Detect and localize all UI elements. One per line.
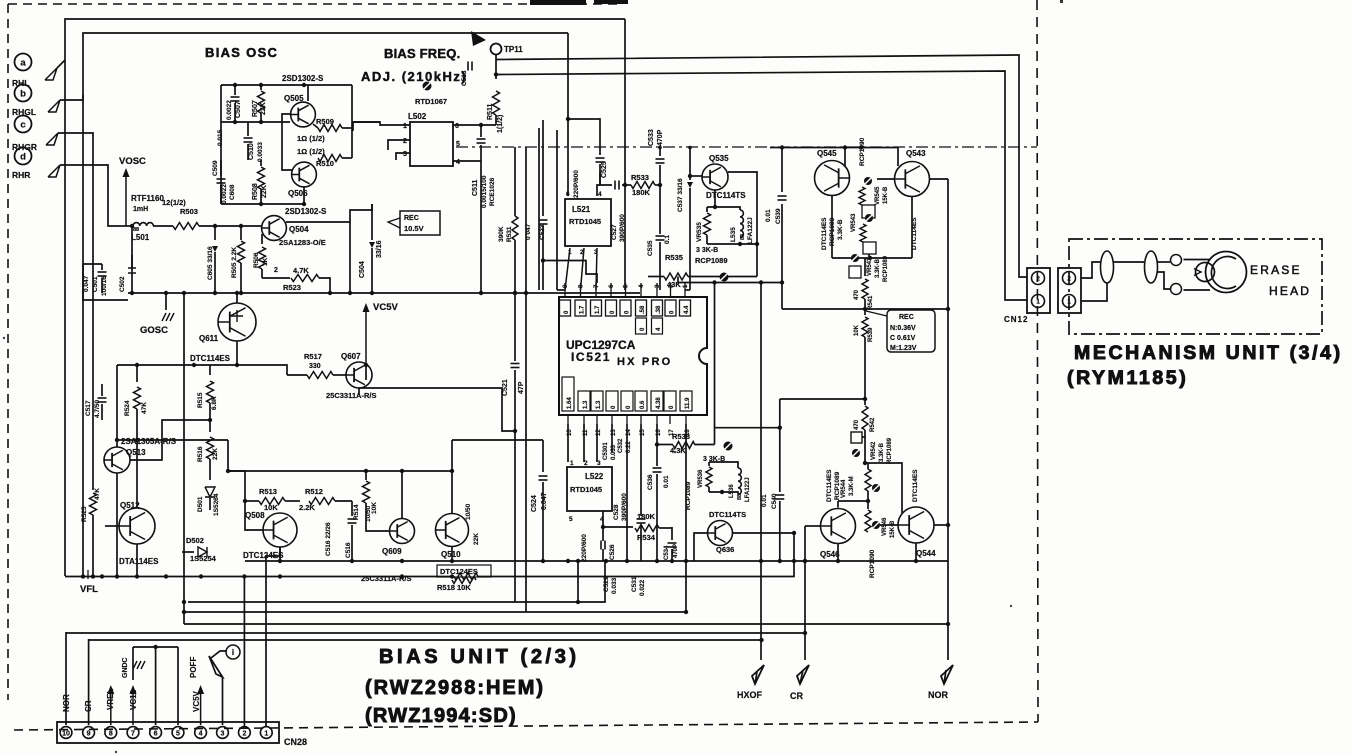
svg-text:C539: C539 — [775, 208, 782, 224]
svg-text:Q636: Q636 — [716, 545, 734, 554]
svg-text:88: 88 — [737, 494, 743, 500]
svg-text:25C3311A-R/S: 25C3311A-R/S — [326, 391, 376, 400]
svg-text:DTA114ES: DTA114ES — [119, 557, 159, 566]
svg-text:9: 9 — [87, 730, 91, 737]
wire head pin2 — [1081, 262, 1101, 278]
svg-text:HX PRO: HX PRO — [617, 356, 672, 368]
wire Q543 top — [897, 148, 899, 167]
svg-text:BIAS FREQ.: BIAS FREQ. — [384, 46, 460, 61]
svg-text:DTC124ES: DTC124ES — [440, 567, 478, 576]
connector mech side — [1058, 268, 1081, 313]
resistor R538 wire — [713, 444, 715, 446]
wire Q513 connections — [116, 440, 118, 447]
wire VFL rail — [65, 576, 452, 578]
resistor R507 — [260, 85, 262, 90]
svg-text:Q546: Q546 — [820, 550, 840, 559]
IC521 top second boxes — [636, 318, 647, 334]
resistor R542 470 — [864, 352, 866, 405]
bus wire y640 HXOF run — [89, 639, 762, 641]
svg-text:R509: R509 — [316, 117, 334, 126]
IC521 top pin 5 — [625, 290, 627, 297]
capacitor C504 — [371, 204, 373, 240]
border dashed bottom — [14, 722, 1038, 730]
transistor Q504 — [262, 216, 287, 241]
svg-text:L521: L521 — [572, 205, 591, 214]
svg-text:7: 7 — [131, 730, 135, 737]
wire Q511 bottom — [236, 341, 238, 365]
svg-text:1mH: 1mH — [133, 206, 148, 213]
bus wire y612 — [184, 611, 686, 613]
wire x782 vertical — [781, 148, 783, 193]
resistor R516 — [209, 420, 211, 432]
border dashed top — [8, 3, 622, 5]
svg-text:MECHANISM UNIT (3/4): MECHANISM UNIT (3/4) — [1074, 342, 1343, 364]
svg-text:C528: C528 — [613, 504, 620, 520]
svg-text:Q545: Q545 — [817, 149, 837, 158]
svg-text:22K: 22K — [260, 102, 267, 115]
transistor Q545 — [815, 161, 850, 196]
trimmer dot Q536 — [724, 442, 733, 451]
svg-text:POFF: POFF — [189, 657, 198, 678]
svg-text:R512: R512 — [305, 487, 323, 496]
svg-text:Q505: Q505 — [284, 94, 304, 103]
svg-text:0.047: 0.047 — [541, 492, 548, 510]
wire center vertical x526 — [525, 147, 527, 612]
svg-text:Q510: Q510 — [441, 550, 461, 559]
svg-text:L502: L502 — [408, 112, 427, 121]
svg-text:2: 2 — [403, 138, 407, 145]
bus wire TP11 to CN12 pin2 — [496, 55, 1027, 277]
inner border wire 1 — [65, 19, 625, 576]
svg-text:C537 33/16: C537 33/16 — [677, 178, 684, 212]
wire left col x117 — [116, 365, 118, 440]
svg-text:1.7: 1.7 — [595, 305, 601, 314]
svg-text:1.7: 1.7 — [579, 305, 585, 314]
svg-text:0.022: 0.022 — [639, 579, 646, 596]
wire row 440 to C524 — [452, 439, 543, 441]
wire IC to L522 — [567, 424, 569, 462]
svg-text:10K: 10K — [854, 324, 860, 336]
label VFL — [87, 570, 89, 579]
svg-text:4.7K: 4.7K — [293, 266, 309, 275]
wire CN28 pin1 up — [266, 547, 280, 727]
switch CR — [797, 665, 809, 684]
transistor Q511 — [218, 303, 256, 341]
switch POFF — [222, 677, 224, 725]
ground GOSC — [165, 293, 167, 310]
svg-text:6: 6 — [566, 191, 570, 198]
svg-text:L522: L522 — [585, 472, 604, 481]
svg-text:R538: R538 — [672, 432, 690, 441]
svg-text:3 3K-B: 3 3K-B — [696, 247, 718, 254]
CN28 pin 9 — [83, 727, 95, 739]
transistor Q510 — [436, 514, 469, 547]
IC521 bottom pin 11 — [583, 415, 585, 424]
svg-text:1: 1 — [264, 730, 268, 737]
wire L502 pin6 to R511 — [453, 124, 496, 126]
bus wire y602 — [188, 561, 605, 602]
svg-text:Q535: Q535 — [709, 154, 729, 163]
svg-text:10: 10 — [62, 730, 70, 737]
bus wire y561 component rail — [245, 560, 948, 562]
wire Q512 base — [105, 525, 119, 527]
svg-text:DTC114ES: DTC114ES — [912, 469, 919, 502]
svg-text:6: 6 — [154, 730, 158, 737]
CN28 pin 7 — [127, 727, 139, 739]
svg-text:CN28: CN28 — [284, 737, 307, 747]
svg-text:1: 1 — [403, 123, 407, 130]
svg-text:10K: 10K — [264, 503, 278, 512]
svg-text:2SA1305A-R/S: 2SA1305A-R/S — [121, 437, 177, 446]
transistor Q513 — [104, 447, 130, 473]
CN28 pin 8 — [105, 727, 117, 739]
svg-text:DTC114ES: DTC114ES — [821, 217, 828, 250]
oscillator coil L502 — [410, 122, 453, 166]
svg-text:TP11: TP11 — [504, 45, 523, 54]
transistor Q512 — [119, 508, 155, 544]
transistor Q543 — [895, 162, 930, 197]
scan speck — [3, 337, 5, 339]
wire pin18 column — [685, 424, 687, 612]
svg-text:0.047: 0.047 — [83, 275, 90, 292]
svg-text:VC5V: VC5V — [373, 302, 398, 313]
wire Q636 right — [732, 532, 794, 534]
wire L536 loop — [709, 462, 738, 468]
wire Q535 emitter down — [714, 190, 716, 207]
svg-text:3.3K-B: 3.3K-B — [879, 442, 885, 462]
svg-text:10.5V: 10.5V — [404, 224, 424, 233]
svg-text:0.0022: 0.0022 — [226, 100, 233, 120]
svg-text:RCP1089: RCP1089 — [685, 481, 692, 510]
wire Q607 collector — [365, 364, 367, 366]
ground wire row R523 — [128, 292, 640, 294]
head gap wedge — [1194, 269, 1201, 276]
resistor R508 — [260, 160, 262, 166]
wire into L521 — [567, 33, 569, 196]
svg-text:0.6: 0.6 — [640, 400, 646, 409]
svg-text:3: 3 — [221, 730, 225, 737]
svg-text:R525: R525 — [81, 506, 88, 522]
svg-text:1(1/2): 1(1/2) — [497, 115, 504, 133]
svg-text:C507: C507 — [235, 101, 242, 118]
svg-text:C525: C525 — [601, 161, 608, 178]
svg-text:3.3K-B: 3.3K-B — [875, 258, 881, 278]
wire NOR column upper — [947, 179, 949, 624]
IC521 bottom pin 15 — [640, 415, 642, 424]
inductor L501 — [118, 225, 133, 227]
trimmer dot RCP1089 — [720, 273, 729, 282]
wire x557 column — [556, 130, 558, 290]
svg-text:4.4: 4.4 — [684, 305, 690, 314]
pot VR545 cluster — [864, 177, 872, 185]
svg-text:C516: C516 — [345, 542, 352, 558]
svg-text:C513: C513 — [461, 70, 468, 86]
svg-text:100/16: 100/16 — [101, 276, 108, 296]
wire x350 down — [349, 222, 351, 293]
transistor Q505 — [291, 102, 316, 127]
svg-text:1: 1 — [570, 460, 574, 467]
svg-text:.38: .38 — [656, 305, 662, 314]
svg-text:1K: 1K — [262, 257, 269, 266]
capacitor C605 — [214, 226, 216, 240]
wire Q505 collector riser — [307, 85, 309, 101]
resistor R524 — [136, 365, 138, 382]
bandpass L522 RTD1045 — [567, 467, 612, 511]
svg-text:CR: CR — [790, 691, 803, 701]
svg-text:1Ω (1/2): 1Ω (1/2) — [297, 147, 325, 156]
wire left riser x184 — [183, 293, 185, 624]
svg-text:D501: D501 — [197, 496, 204, 512]
svg-text:R513: R513 — [259, 487, 277, 496]
trimmer VR541 — [851, 254, 859, 262]
svg-text:C536: C536 — [647, 474, 654, 490]
wire Q543 bottom — [911, 197, 913, 258]
scan smudge top edge — [530, 0, 586, 5]
wire x452 column — [451, 440, 453, 513]
svg-text:Q544: Q544 — [916, 549, 936, 558]
wire L502 pin2 — [388, 140, 410, 150]
connector CN12 — [1027, 268, 1050, 313]
pot VR543 cluster — [865, 214, 873, 222]
switch contact RHGR — [46, 133, 58, 145]
svg-text:2: 2 — [1036, 276, 1040, 283]
resistor R509 — [318, 125, 342, 132]
svg-text:10K: 10K — [371, 502, 378, 514]
svg-text:VOSC: VOSC — [119, 156, 146, 167]
svg-text:0.1: 0.1 — [664, 235, 671, 244]
wire head pin1 — [1081, 283, 1107, 301]
svg-text:R539: R539 — [868, 327, 874, 342]
svg-text:470: 470 — [854, 419, 860, 430]
resistor R525 — [92, 486, 94, 490]
IC521 top pin 9 — [564, 290, 566, 297]
svg-text:2SD1302-S: 2SD1302-S — [285, 207, 327, 216]
svg-text:RCP1089: RCP1089 — [695, 256, 728, 265]
wire y399 link — [780, 398, 865, 400]
wire L521 pins to IC — [565, 248, 570, 290]
wire R525 — [92, 460, 94, 486]
wire Q535 collector loop — [728, 172, 757, 277]
transistor Q544 — [898, 507, 934, 543]
svg-text:470P: 470P — [673, 544, 679, 558]
head winding — [1184, 259, 1211, 261]
svg-text:HXOF: HXOF — [737, 690, 763, 700]
svg-text:R542: R542 — [870, 417, 876, 432]
svg-text:C535: C535 — [647, 240, 654, 256]
svg-text:22K: 22K — [261, 185, 268, 198]
svg-text:4: 4 — [199, 730, 203, 737]
svg-text:6: 6 — [455, 123, 459, 130]
input terminal c — [15, 116, 32, 133]
svg-text:2: 2 — [584, 460, 588, 467]
wire C501 row — [83, 263, 102, 265]
svg-text:(RYM1185): (RYM1185) — [1067, 367, 1188, 389]
svg-text:L536: L536 — [729, 484, 735, 498]
resistor R505 — [240, 226, 242, 240]
svg-text:0.0022: 0.0022 — [221, 184, 228, 204]
svg-text:12(1/2): 12(1/2) — [162, 198, 186, 207]
capacitor C501 — [101, 264, 103, 270]
bus wire y624 NOR run — [184, 623, 948, 625]
IC521 top pin 7 — [595, 290, 597, 297]
svg-text:R508: R508 — [252, 183, 259, 200]
transistor Q607 — [346, 362, 372, 388]
wire RHL to bus — [57, 60, 65, 68]
wire C527 row — [600, 172, 612, 185]
osc block top wire — [221, 84, 352, 86]
bus wire to CN12 pin1 — [496, 71, 1027, 300]
connector CN28 — [57, 722, 279, 743]
wire Q636 base left — [694, 533, 708, 561]
svg-text:VFL: VFL — [80, 584, 98, 595]
svg-text:470: 470 — [854, 289, 860, 300]
pot VR546 — [867, 501, 869, 509]
inner border wire 2 — [83, 33, 568, 576]
input terminal a — [15, 54, 32, 71]
svg-text:3.3K-B: 3.3K-B — [837, 219, 844, 240]
trimmer VR546 — [872, 521, 880, 529]
wire Q544 base — [880, 524, 898, 526]
svg-text:4: 4 — [598, 191, 602, 198]
resistor R510 — [318, 155, 342, 162]
svg-text:RHR: RHR — [12, 170, 30, 180]
IC521 bottom pin 12 — [596, 415, 598, 424]
svg-text:VR546: VR546 — [882, 517, 888, 536]
svg-text:180K: 180K — [632, 188, 651, 197]
switch NOR — [941, 665, 953, 684]
IC521 bottom pin 13 — [611, 415, 613, 424]
svg-text:2.2K: 2.2K — [299, 503, 315, 512]
svg-text:3: 3 — [597, 460, 601, 467]
wire Q504 base row — [199, 225, 262, 227]
svg-text:RTD1045: RTD1045 — [569, 217, 601, 226]
resistor R506 — [261, 234, 263, 244]
wire L502 pin3 — [396, 153, 410, 160]
svg-text:0.01: 0.01 — [765, 209, 772, 222]
svg-text:C524: C524 — [531, 495, 538, 512]
CN28 pin 5 — [172, 727, 184, 739]
svg-text:1.3: 1.3 — [583, 400, 589, 409]
svg-text:b: b — [20, 89, 26, 100]
svg-text:C504: C504 — [359, 261, 366, 278]
CN28 pin 6 — [150, 727, 162, 739]
svg-text:d: d — [20, 152, 26, 163]
svg-text:(RWZ2988:HEM): (RWZ2988:HEM) — [365, 677, 545, 699]
svg-text:IC521: IC521 — [571, 350, 611, 364]
svg-text:RTD1045: RTD1045 — [570, 485, 602, 494]
IC521 top pin 8 — [580, 290, 582, 297]
svg-text:Q543: Q543 — [906, 149, 926, 158]
wire L502 pin4 — [453, 160, 481, 162]
IC521 bottom pin 18 — [685, 415, 687, 424]
svg-text:DTC114TS: DTC114TS — [706, 191, 746, 200]
resistor R515 — [209, 365, 211, 375]
svg-text:ADJ. (210kHz): ADJ. (210kHz) — [361, 69, 467, 84]
svg-text:25C3311A-R/S: 25C3311A-R/S — [361, 574, 411, 583]
capacitor C535 — [656, 235, 665, 237]
svg-text:2SA1283-O/E: 2SA1283-O/E — [279, 238, 326, 247]
svg-text:C501: C501 — [92, 276, 99, 292]
transistor Q508 — [263, 513, 297, 547]
wire Q506 emitter — [303, 187, 305, 204]
svg-text:VR545: VR545 — [875, 186, 881, 205]
wire L522 pin4 — [603, 511, 633, 527]
svg-text:RCP1089: RCP1089 — [883, 255, 889, 282]
pot VR536 — [708, 462, 710, 466]
wire L535 loop — [707, 207, 740, 210]
svg-text:C531: C531 — [631, 576, 638, 592]
svg-text:2SD1302-S: 2SD1302-S — [282, 74, 324, 83]
svg-text:5: 5 — [176, 730, 180, 737]
erase head core — [1206, 252, 1247, 293]
test point TP11 — [491, 44, 502, 55]
capacitor C526 — [602, 527, 604, 541]
wire x543 column — [542, 120, 544, 196]
resistor R541 470 — [864, 258, 866, 276]
IC521 bottom pin 10 — [567, 415, 569, 424]
resistor R523 — [262, 277, 290, 279]
switch contact RHR — [48, 165, 60, 177]
wire L502 pin1 — [353, 122, 410, 131]
osc block left rail — [220, 85, 222, 204]
svg-text:3: 3 — [403, 151, 407, 158]
svg-text:43K: 43K — [667, 280, 681, 289]
svg-text:0.01: 0.01 — [761, 494, 768, 507]
head winding wires — [1157, 261, 1170, 263]
wire mesh above IC — [543, 261, 597, 284]
switch contact RHL — [45, 68, 57, 80]
trimmer VR542 — [852, 449, 860, 457]
svg-text:Q513: Q513 — [126, 448, 146, 457]
wire Q510 bottom — [451, 547, 453, 561]
svg-text:C608: C608 — [229, 184, 236, 200]
capacitor C534 — [671, 527, 673, 540]
wire Q609 — [366, 522, 389, 531]
input terminal b — [15, 85, 32, 102]
IC521 top pin 4 — [640, 290, 642, 297]
wire RHGR to bus — [58, 133, 93, 460]
svg-text:C516 22/26: C516 22/26 — [325, 522, 332, 556]
capacitor C507 — [234, 85, 236, 95]
svg-text:M:1.23V: M:1.23V — [890, 345, 917, 352]
node row463 — [863, 461, 867, 465]
border dashed left — [7, 4, 9, 700]
svg-text:0.033: 0.033 — [611, 577, 618, 594]
wire branch to C525 — [568, 119, 600, 155]
wire VC5V node — [365, 365, 367, 380]
svg-text:R535: R535 — [665, 253, 683, 262]
wire chain to Q546 — [838, 500, 868, 502]
wire HXOF stub — [760, 283, 762, 661]
svg-text:RTF1160: RTF1160 — [131, 194, 164, 203]
svg-text:D502: D502 — [186, 536, 204, 545]
CN28 pin 3 — [217, 727, 229, 739]
CN28 pin 2 — [239, 727, 251, 739]
resistor R511 — [495, 54, 497, 79]
svg-text:15K-B: 15K-B — [883, 186, 889, 204]
svg-text:6.8K: 6.8K — [211, 396, 218, 410]
svg-text:4: 4 — [456, 159, 460, 166]
svg-text:ERASE: ERASE — [1250, 263, 1302, 277]
svg-text:DTC114ES: DTC114ES — [190, 354, 231, 363]
IC521 top pin 1 — [684, 290, 686, 297]
svg-text:0.0033: 0.0033 — [257, 142, 264, 162]
svg-text:REC: REC — [404, 215, 419, 222]
svg-text:RCP1089: RCP1089 — [887, 437, 893, 464]
svg-text:22K: 22K — [212, 448, 219, 460]
svg-text:470P: 470P — [657, 129, 664, 146]
svg-text:R514: R514 — [353, 504, 360, 520]
